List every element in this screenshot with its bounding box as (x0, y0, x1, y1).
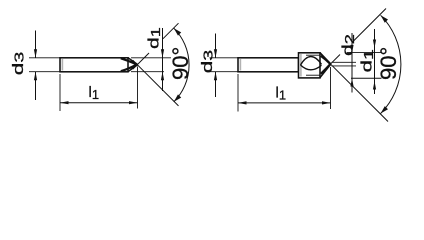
svg-text:d3: d3 (199, 50, 215, 73)
svg-text:d3: d3 (10, 52, 26, 75)
svg-text:90°: 90° (376, 47, 401, 80)
svg-text:90°: 90° (168, 47, 193, 80)
svg-text:l1: l1 (89, 84, 100, 102)
svg-text:d1: d1 (359, 49, 376, 72)
svg-text:l1: l1 (276, 85, 287, 103)
